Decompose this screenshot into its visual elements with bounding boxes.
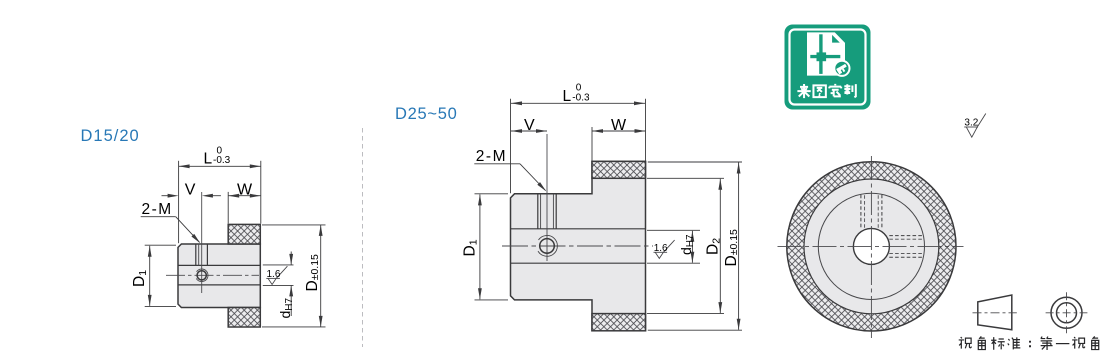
svg-text:2-M: 2-M [142,201,173,218]
svg-text:-0.3: -0.3 [572,93,590,104]
hidden set screw hole top, minor lines (front view) [865,195,879,228]
horizontal centerline (left view) [166,274,259,276]
first-angle symbol centerlines (circle view) [1046,312,1088,314]
svg-text:2-M: 2-M [476,148,507,165]
flange knurl hatch bottom (left view) [228,308,260,328]
svg-text:3.2: 3.2 [964,118,978,129]
set screw hole major lines (middle view) [537,194,539,229]
bore line bottom (left view) [178,284,260,286]
flange knurl hatch top (left view) [228,224,260,244]
svg-text:D25~50: D25~50 [395,105,457,123]
svg-text:-0.3: -0.3 [213,155,231,166]
set screw vertical centerline (left view) [201,192,203,293]
horizontal centerline (middle view) [502,245,653,247]
V dimension (left view) [162,195,221,197]
D +-0.15 dimension (left view) [262,225,326,327]
first-angle projection symbol: truncated cone [978,295,1012,330]
drawing cross center block [817,52,827,61]
hidden set screw hole right, major lines (front view) [889,236,923,258]
dH7 dimension (left view) [263,252,294,317]
first-angle projection symbol: circles [1051,297,1082,328]
L dimension (middle view) [511,99,646,194]
document sheet [807,32,845,75]
svg-text:D15/20: D15/20 [81,127,140,145]
set screw circle outer (left view) [196,269,208,282]
set screw circle inner (middle view) [540,239,555,254]
set screw hole minor lines (middle view) [540,194,542,229]
V dimension (middle view) [511,130,547,132]
1.6 surface finish symbol (middle view) [654,240,675,258]
svg-text:L: L [563,88,572,105]
badge background [785,25,871,110]
W dimension (middle view) [592,127,646,161]
set screw hole minor lines (left view) [198,244,200,265]
document folded corner [832,35,840,43]
set screw hole major lines (left view) [195,244,197,265]
hidden set screw hole right, minor lines (front view) [889,239,923,253]
separator dashed line [362,128,364,347]
3.2 surface finish symbol [964,114,986,138]
D1 dimension (left view) [145,245,176,306]
badge text 来图定制 (white) [797,84,855,98]
set screw vertical centerline (middle view) [546,134,548,261]
D +-0.15 dimension (middle view) [648,162,742,330]
drawing cross horizontal [810,55,840,58]
first-angle symbol centerline (cone) [973,312,1017,314]
D2 circle (front view) [804,179,939,314]
caliper glyph [836,64,848,75]
vertical centerline (front view) [870,156,872,338]
dH7 dimension (middle view) [647,230,700,263]
horizontal centerline (front view) [778,245,964,247]
1.6 surface finish symbol (left view) [266,266,287,284]
flange knurl hatch top (middle view) [592,161,646,178]
D1 circle (front view) [818,193,924,299]
svg-text:W: W [237,181,253,198]
svg-text:1.6: 1.6 [654,243,668,254]
svg-text:V: V [185,181,196,198]
L dimension (left view) [179,161,261,243]
set screw circle outer (middle view) [538,235,557,256]
D2 dimension (middle view) [647,178,724,313]
badge inner white border [790,30,866,105]
bore line bottom (middle view) [511,262,646,264]
hub body (left view) [178,244,260,308]
set screw circle inner (left view) [197,271,206,280]
W dimension (left view) [228,192,261,224]
svg-text:1.6: 1.6 [267,269,281,280]
drawing cross vertical [819,34,822,74]
D1 dimension (middle view) [475,194,509,300]
caliper badge circle [834,61,849,76]
svg-text:V: V [524,117,535,134]
svg-text:L: L [204,151,213,168]
hub body with flange silhouette (middle view) [511,161,646,330]
outer knurled disc (front view) [787,162,956,331]
bore line top (middle view) [511,228,646,230]
svg-text:W: W [611,117,627,134]
bore line top (left view) [178,264,260,266]
bore circle (front view) [853,228,889,264]
caption 视角标准：第一视角 (black) [959,336,1099,350]
hidden set screw hole top, major lines (front view) [861,195,882,229]
flange knurl hatch bottom (middle view) [592,314,646,331]
